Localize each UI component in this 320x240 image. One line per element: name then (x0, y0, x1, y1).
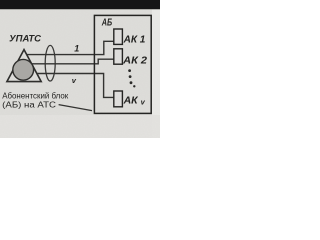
leader line from caption to AB box (59, 105, 92, 111)
PBX triangle (7, 50, 41, 82)
AKv unit box (114, 91, 123, 107)
bottom lighter area (0, 115, 160, 138)
PBX circle (shaded) (13, 59, 34, 80)
cable bundle ellipse (45, 45, 55, 81)
subscriber block AB box (94, 15, 151, 113)
svg-text:1: 1 (74, 44, 79, 54)
wire line v (to AKv) (37, 74, 114, 98)
scanned page background (0, 0, 160, 138)
AK1 unit box (114, 29, 123, 44)
svg-text:АК: АК (123, 95, 139, 106)
svg-text:АБ: АБ (101, 18, 112, 29)
ellipsis dots (128, 69, 131, 72)
svg-text:АК 2: АК 2 (122, 55, 147, 66)
top black scan band (0, 0, 160, 9)
wire line 1 (to AK1) (27, 41, 114, 54)
svg-text:(АБ) на АТС: (АБ) на АТС (2, 100, 56, 110)
AK2 unit box (114, 49, 123, 64)
svg-text:АК 1: АК 1 (123, 35, 146, 46)
svg-text:УПАТС: УПАТС (9, 33, 41, 43)
wire line 2 (to AK2) (32, 59, 114, 64)
right page margin (lighter strip) (152, 0, 160, 138)
